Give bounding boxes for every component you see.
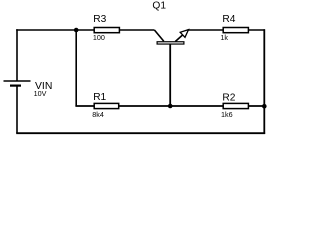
svg-text:Q1: Q1 [152, 1, 166, 12]
svg-text:1k: 1k [220, 33, 228, 42]
svg-text:R3: R3 [93, 14, 106, 25]
svg-text:1k6: 1k6 [221, 110, 233, 119]
svg-text:100: 100 [93, 33, 105, 42]
svg-text:R2: R2 [222, 92, 235, 103]
svg-text:R1: R1 [93, 92, 106, 103]
svg-text:10V: 10V [34, 89, 47, 98]
svg-text:R4: R4 [222, 14, 235, 25]
svg-text:8k4: 8k4 [92, 110, 104, 119]
